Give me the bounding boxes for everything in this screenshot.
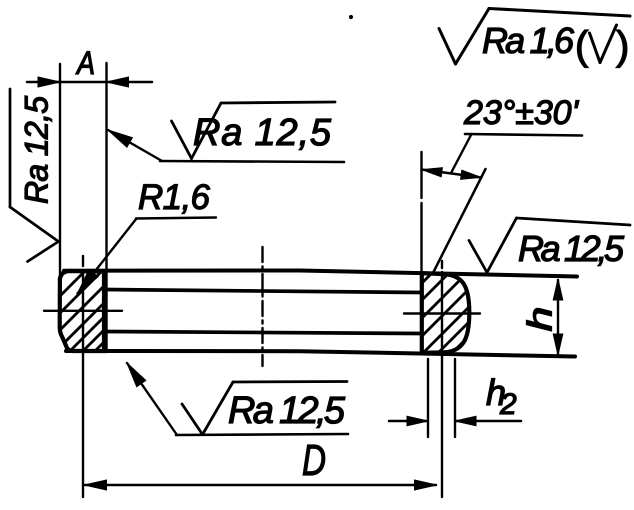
general roughness symbol: long leg <box>456 9 490 65</box>
svg-text:A: A <box>75 45 95 81</box>
wire: 23deg chamfer cone line <box>433 169 486 273</box>
speck dot <box>349 15 352 18</box>
arrowhead angle left <box>422 168 442 177</box>
leader line of R1,6 <box>78 219 137 294</box>
roughness symbol middle: short leg <box>172 121 192 159</box>
roughness symbol middle: top bar <box>221 102 335 103</box>
wire: A dimension right extension line <box>105 63 107 352</box>
general roughness symbol: top bar <box>489 9 630 17</box>
node: right cross-section outline <box>422 273 470 353</box>
svg-text:D: D <box>302 436 326 485</box>
roughness symbol bottom: long leg <box>203 382 234 435</box>
shelf line of bottom Ra 12,5 <box>176 434 348 435</box>
roughness symbol left: long leg <box>10 207 59 242</box>
wire: ring lower inner cone line <box>104 332 422 334</box>
wire: horizontal centerline through right section <box>404 312 480 314</box>
general roughness symbol: short leg <box>439 29 456 65</box>
svg-text:2: 2 <box>499 388 517 421</box>
shelf of angle label <box>465 134 582 136</box>
roughness symbol right: short leg <box>469 241 487 273</box>
wire: D dimension line <box>85 484 436 486</box>
shelf line of middle Ra 12,5 <box>160 161 344 162</box>
arrowhead h bottom (down) <box>553 334 563 355</box>
small check in parentheses: short leg <box>590 33 601 63</box>
arrowhead D right <box>415 480 437 490</box>
svg-text:23°±30': 23°±30' <box>463 94 580 132</box>
wire: extension line above right section left edge <box>420 152 422 273</box>
wire: h2 left extension line <box>427 359 429 437</box>
svg-text:Ra 12,5: Ra 12,5 <box>228 390 346 432</box>
wire: angle dimension line <box>422 170 482 178</box>
wire: A dimension line <box>27 81 152 84</box>
svg-text:R1,6: R1,6 <box>138 178 211 217</box>
arrowhead D left <box>85 480 107 490</box>
arrowhead h2 left (pointing right) <box>407 416 428 426</box>
svg-text:h: h <box>522 307 560 332</box>
wire: vertical dash-dot centerline of ring (middle) <box>261 247 263 366</box>
wire: h2 right extension line <box>454 359 456 437</box>
wire: ring bottom outer surface line <box>66 351 575 357</box>
wire: ring top outer surface line <box>64 271 577 277</box>
node: left cross-section outline <box>60 271 104 351</box>
wire: D right extension / right section centerline <box>441 261 443 497</box>
roughness symbol bottom: short leg <box>182 404 203 435</box>
shelf line of R1,6 <box>136 218 216 219</box>
arrowhead h2 right (pointing left) <box>455 416 476 426</box>
wire: ring upper inner cone line <box>104 290 422 293</box>
leader arrowhead of R1,6 <box>78 270 99 294</box>
svg-text:(: ( <box>575 24 589 68</box>
svg-text:Ra 12,5: Ra 12,5 <box>193 112 332 154</box>
wire: horizontal centerline through left section <box>44 310 122 312</box>
leader arrowhead of bottom Ra 12,5 <box>127 363 146 387</box>
leader arrowhead to A extension line <box>108 130 132 147</box>
arrowhead A right (pointing left) <box>107 77 129 87</box>
leader line of middle Ra 12,5 <box>108 130 162 161</box>
wire: A dimension left extension line <box>59 64 61 281</box>
roughness symbol left: short leg <box>28 242 59 262</box>
roughness symbol right: top bar <box>517 218 631 225</box>
wire: D left extension line through left section <box>82 256 84 497</box>
svg-text:Ra 1,6: Ra 1,6 <box>482 20 575 61</box>
arrowhead h top (up) <box>553 279 563 300</box>
wire: h2 dimension line right part <box>456 420 521 423</box>
wire: h dimension line <box>557 280 559 354</box>
roughness symbol right: long leg <box>487 218 517 273</box>
svg-text:): ) <box>616 24 629 68</box>
svg-text:Ra 12,5: Ra 12,5 <box>518 228 625 269</box>
svg-text:Ra 12,5: Ra 12,5 <box>19 96 55 204</box>
arrowhead angle right <box>461 170 481 179</box>
roughness symbol middle: long leg <box>192 103 222 159</box>
leader line of bottom Ra 12,5 <box>127 363 177 435</box>
arrowhead A left (pointing right) <box>38 77 60 87</box>
leader of angle label <box>451 134 472 173</box>
wire: h2 dimension line left part <box>389 420 427 423</box>
small check in parentheses: long leg <box>600 25 617 63</box>
roughness symbol bottom: top bar <box>233 380 347 383</box>
roughness symbol left (rotated): top bar <box>9 89 12 207</box>
